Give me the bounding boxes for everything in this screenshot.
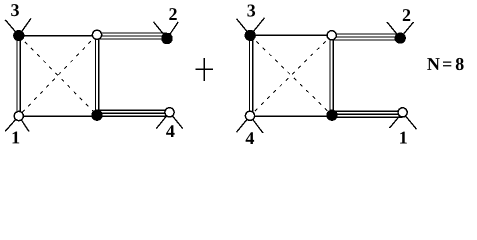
node: diagram 1 vertex 3 (filled): [14, 31, 24, 41]
wire: diagram 2 dashed diagonal TR-BL: [250, 35, 332, 116]
node: diagram 2 bottom-right vertex (filled): [327, 110, 337, 120]
node: diagram 1 vertex 4 (open): [165, 108, 174, 117]
wire: diagram 1 bottom triple edge: [97, 110, 170, 116]
label 3 (diagram 1): [11, 4, 19, 16]
label N (N = 8): [427, 58, 440, 70]
wire: diagram 1 vertex 4 external legs: [156, 112, 183, 128]
wire: diagram 2 dashed diagonal TL-BR: [250, 35, 332, 115]
wire: diagram 2 bottom edge: [250, 115, 332, 117]
wire: diagram 2 vertex 2 external legs: [387, 22, 414, 38]
wire: diagram 2 vertex 3 external legs: [237, 18, 265, 36]
label 2 (diagram 1): [169, 8, 176, 20]
node: diagram 2 vertex 1 (open): [398, 108, 407, 117]
label 4 (diagram 1): [166, 125, 175, 137]
label 3 (diagram 2): [247, 5, 255, 17]
wire: diagram 1 vertex 3 external legs: [5, 18, 31, 35]
node: diagram 2 vertex 2 (filled): [395, 33, 405, 43]
wire: diagram 2 vertex 4 external legs: [237, 116, 264, 133]
label 8 (N = 8): [456, 58, 464, 70]
wire: diagram 2 vertex 1 external legs: [390, 112, 417, 129]
node: diagram 1 bottom-right vertex (filled): [92, 110, 102, 120]
label = (N = 8): [443, 62, 451, 67]
wire: diagram 1 vertex 2 external legs: [154, 22, 179, 39]
wire: diagram 1 dashed diagonal TL-BR: [19, 36, 97, 116]
wire: diagram 1 right double edge: [96, 35, 99, 115]
wire: diagram 2 left double edge: [250, 35, 253, 115]
wire: diagram 1 vertex 1 external legs: [5, 116, 29, 132]
wire: diagram 1 left double edge: [17, 36, 20, 116]
node: diagram 2 vertex 3 (filled): [245, 30, 255, 40]
plus sign between diagrams: [196, 58, 214, 81]
node: diagram 2 top-right vertex (open): [327, 31, 336, 40]
wire: diagram 1 top triple edge: [97, 33, 167, 39]
label 2 (diagram 2): [403, 9, 410, 21]
label 1 (diagram 2): [400, 132, 407, 144]
wire: diagram 2 top triple edge: [332, 34, 401, 40]
label 4 (diagram 2): [246, 132, 255, 144]
node: diagram 1 top-right vertex (open): [92, 30, 101, 39]
wire: diagram 2 right double edge: [330, 35, 333, 115]
wire: diagram 1 top edge: [19, 35, 97, 37]
wire: diagram 2 top edge: [250, 34, 332, 36]
wire: diagram 1 dashed diagonal TR-BL: [19, 35, 97, 116]
node: diagram 1 vertex 2 (filled): [162, 33, 172, 43]
wire: diagram 1 bottom edge: [19, 115, 97, 117]
wire: diagram 2 bottom triple edge: [332, 111, 403, 117]
label 1 (diagram 1): [13, 132, 20, 144]
node: diagram 1 vertex 1 (open): [14, 111, 23, 120]
node: diagram 2 vertex 4 (open): [245, 111, 254, 120]
